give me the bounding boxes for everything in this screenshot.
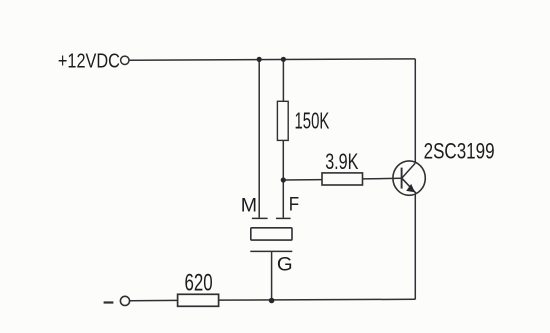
svg-text:M: M	[241, 195, 257, 217]
svg-text:F: F	[289, 194, 299, 216]
svg-text:150K: 150K	[295, 107, 330, 133]
svg-text:+12VDC: +12VDC	[58, 50, 120, 72]
svg-text:3.9K: 3.9K	[325, 149, 358, 174]
svg-text:2SC3199: 2SC3199	[424, 138, 495, 163]
svg-text:G: G	[277, 255, 293, 276]
svg-text:620: 620	[185, 270, 213, 297]
